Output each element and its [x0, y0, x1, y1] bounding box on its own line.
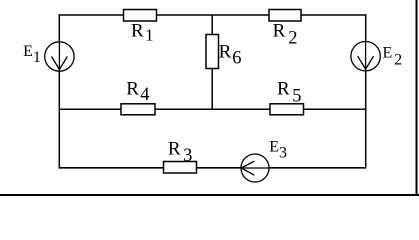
- resistor R2: [269, 10, 301, 22]
- resistor R1: [124, 10, 157, 22]
- wire bottom rail: [59, 167, 367, 169]
- source E3: [241, 154, 269, 182]
- source E1: [45, 42, 74, 71]
- wire middle rail: [59, 108, 367, 110]
- frame right border: [416, 0, 418, 196]
- source E2: [351, 42, 380, 71]
- resistor R3: [164, 162, 197, 174]
- resistor R6: [206, 35, 219, 69]
- resistor R5: [270, 104, 304, 115]
- resistor R4: [121, 104, 155, 115]
- frame bottom border: [0, 194, 419, 196]
- wire left rail: [58, 14, 60, 168]
- wire R6 branch: [211, 15, 213, 109]
- wire top rail: [59, 14, 367, 16]
- wire right rail: [365, 14, 367, 168]
